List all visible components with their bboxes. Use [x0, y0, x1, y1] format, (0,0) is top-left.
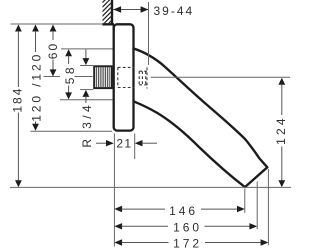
dimension 58	[60, 49, 113, 100]
svg-text:172: 172	[173, 236, 202, 250]
wall face line	[111, 0, 113, 24]
dimension 146	[114, 189, 245, 218]
svg-text:124: 124	[274, 115, 288, 145]
dimension 184	[11, 25, 25, 188]
svg-text:R 3/4: R 3/4	[80, 102, 94, 148]
dimension 120/120	[30, 25, 112, 132]
dimension R 3/4	[80, 49, 94, 147]
threaded pipe stub	[94, 66, 112, 88]
svg-text:21: 21	[116, 137, 132, 151]
svg-text:146: 146	[169, 204, 198, 218]
wall hatch	[100, 0, 113, 37]
bottom reference line	[10, 186, 291, 188]
wall underside line	[102, 23, 114, 25]
escutcheon plate	[114, 24, 134, 130]
escutcheon top-left corner square-off	[113, 24, 115, 30]
hidden pipe dashed	[118, 67, 147, 88]
svg-text:60: 60	[46, 42, 60, 60]
pipe centre line	[44, 76, 61, 78]
dimension 39-44	[113, 2, 194, 65]
spout body	[133, 48, 268, 187]
svg-text:120 /120: 120 /120	[30, 52, 44, 122]
dimension 60	[46, 25, 60, 77]
svg-text:39-44: 39-44	[154, 4, 195, 18]
svg-text:160: 160	[173, 220, 202, 234]
dimension 172	[114, 169, 268, 250]
svg-text:58: 58	[63, 64, 77, 84]
dimension 160	[114, 182, 257, 235]
dimension 21	[96, 134, 157, 247]
svg-text:184: 184	[11, 87, 25, 113]
top extension line	[11, 23, 104, 25]
dimension 124	[151, 77, 290, 187]
